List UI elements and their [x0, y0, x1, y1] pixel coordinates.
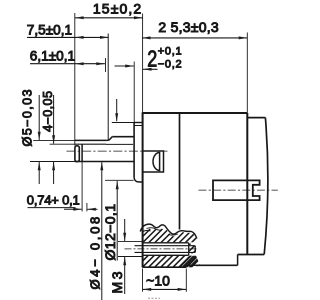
dimension M3 arrows	[124, 219, 126, 241]
svg-text:~10: ~10	[146, 273, 170, 289]
svg-text:6,1±0,1: 6,1±0,1	[30, 49, 75, 64]
boss front face	[133, 123, 135, 178]
dimension 0,74 leader underline	[28, 207, 76, 209]
rear cover right curved edge	[264, 118, 268, 255]
svg-text:2: 2	[147, 46, 157, 72]
dimension 6,1±0,1 line	[30, 63, 105, 65]
dimension 7,5±0,1 line	[27, 36, 109, 38]
svg-text:15±0,2: 15±0,2	[93, 1, 142, 17]
groove extension line long	[81, 161, 83, 211]
dimension Ø5-0,03 text (rotated)	[20, 88, 34, 146]
M3 thread hole bottom minor line	[135, 251, 196, 253]
dimension Ø12 lower arrow line	[116, 181, 118, 261]
boss bottom fillet	[134, 178, 142, 183]
groove extension line short	[86, 203, 88, 211]
dimension Ø5 arrows	[38, 95, 40, 140]
freehand shading stroke	[143, 230, 151, 231]
shaft bottom edge	[75, 161, 134, 163]
svg-text:Ø5−0,03: Ø5−0,03	[20, 88, 34, 146]
M3 boss bottom step	[185, 265, 187, 267]
dimension ~10 line	[143, 288, 187, 290]
extension line Ø5 top	[33, 139, 75, 141]
svg-text:Ø4− 0,08: Ø4− 0,08	[88, 214, 103, 289]
connector centerline	[199, 189, 278, 191]
rear cover top edge	[247, 117, 265, 119]
dimension 15±0,2 line	[75, 17, 143, 19]
M3 hole chamfer end	[194, 246, 196, 253]
bearing housing rectangle	[143, 151, 164, 172]
bearing half-circle	[153, 153, 160, 171]
extension line shaft bottom	[30, 161, 75, 163]
M3 thread hole bottom major line	[118, 256, 142, 258]
dimension 0,74 arrows	[64, 208, 82, 210]
dimension Ø4 line with up arrow	[101, 162, 103, 300]
svg-text:2 5,3±0,3: 2 5,3±0,3	[158, 19, 219, 35]
extension line ~10 left	[142, 269, 144, 292]
svg-text:−0,2: −0,2	[158, 59, 183, 71]
dimension 4-0,05 text (rotated)	[41, 91, 55, 132]
dimension 25,3±0,3 line	[142, 37, 247, 39]
extension line flat 4mm	[50, 143, 75, 145]
motor body internal joint line	[179, 113, 181, 230]
svg-text:Ø12−0,1: Ø12−0,1	[102, 204, 118, 261]
flat line continuation	[106, 143, 133, 145]
motor body top edge	[142, 112, 248, 114]
dimension Ø4-0,08 text (rotated)	[88, 214, 103, 289]
shaft centerline	[67, 150, 168, 152]
boss top edge	[134, 122, 143, 124]
connector rectangle with notch	[213, 180, 260, 200]
dimension Ø12-0,1 text (rotated)	[102, 204, 118, 261]
shaft step line at groove right	[81, 144, 83, 161]
svg-text:+0,1: +0,1	[158, 46, 183, 58]
shaft top edge Ø5	[75, 139, 107, 141]
extension line boss bottom	[105, 179, 134, 181]
dimension 4 arrows	[53, 95, 55, 144]
M3 hole centerline	[125, 248, 197, 250]
rear cover bottom edge	[238, 254, 265, 256]
shaft end groove capsule	[75, 146, 79, 162]
boss top inner line	[135, 125, 143, 127]
M3 thread hole top minor line	[135, 245, 196, 247]
body bottom edge right part	[196, 264, 238, 266]
freehand extra squiggle	[147, 228, 163, 230]
svg-text:0,74+ 0,1: 0,74+ 0,1	[27, 192, 80, 207]
faint bottom mark	[148, 297, 160, 299]
M3 thread hole top major line	[118, 241, 142, 243]
extension line boss face up	[133, 62, 135, 123]
shaft Ø7 top edge	[112, 136, 134, 138]
extension line boss top	[112, 122, 134, 124]
shaft flat line	[75, 143, 106, 145]
extension line body right face up	[246, 33, 248, 114]
motor body front face	[142, 113, 144, 267]
body bottom step	[237, 255, 239, 266]
extension line for 7,5	[107, 34, 109, 141]
extension line ~10 right	[185, 269, 187, 292]
motor body right face	[246, 113, 248, 255]
shaft step fillet up	[106, 137, 112, 141]
extension line for 6,1	[105, 58, 107, 72]
extension line body front face up	[142, 14, 144, 114]
M3 hole end wall	[188, 243, 190, 256]
break wavy line over M3 boss	[140, 224, 197, 238]
dimension 2 arrows	[115, 65, 134, 67]
svg-text:7,5±0,1: 7,5±0,1	[27, 23, 72, 38]
M3 boss bottom edge	[142, 266, 186, 268]
extension line left (shaft end)	[74, 13, 76, 146]
dimension M3 text (rotated)	[109, 269, 125, 294]
dimension Ø12 upper arrow	[116, 99, 118, 121]
svg-text:M3: M3	[109, 269, 125, 294]
